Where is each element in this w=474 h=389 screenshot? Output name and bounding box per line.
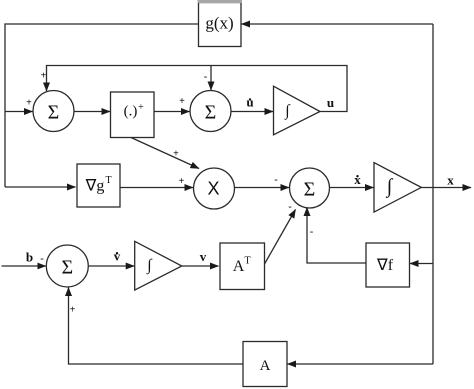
svg-text:x: x [354,172,361,187]
svg-text:v: v [200,249,207,264]
svg-text:b: b [26,250,33,265]
svg-text:Σ: Σ [304,179,316,201]
svg-text:-: - [274,175,277,186]
svg-text:A: A [233,258,245,275]
svg-text:+: + [41,71,47,82]
svg-text:-: - [288,202,291,213]
svg-text:A: A [260,358,271,374]
svg-text:+: + [26,98,32,109]
svg-text:T: T [244,256,250,267]
svg-text:-: - [204,72,207,83]
svg-text:Σ: Σ [48,102,60,124]
svg-text:+: + [70,305,76,316]
svg-text:-: - [310,227,313,238]
svg-text:(.): (.) [124,104,138,120]
svg-text:T: T [105,175,111,186]
svg-text:g(x): g(x) [205,14,233,33]
svg-text:X: X [207,179,219,199]
svg-text:+: + [179,96,185,107]
svg-text:Σ: Σ [205,102,217,124]
svg-text:-: - [40,254,43,265]
svg-text:+: + [179,176,185,187]
svg-text:x: x [447,173,454,188]
svg-text:Σ: Σ [61,257,73,279]
svg-text:∇f: ∇f [376,257,394,274]
svg-text:∇g: ∇g [85,178,105,195]
svg-text:u: u [327,95,334,110]
svg-text:v: v [114,249,121,264]
svg-text:+: + [173,149,179,160]
svg-text:u: u [246,95,253,110]
svg-text:+: + [138,102,144,113]
